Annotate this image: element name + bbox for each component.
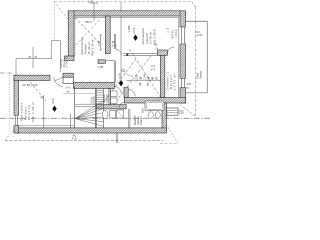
balcony outline right [186,21,208,93]
label zimmer rotated [166,71,177,90]
fixture rect wc-room 1 [111,91,118,97]
door arc bath [128,90,135,97]
door arc entrance west-wing [54,77,63,86]
wall interior v1 (x105-110) [105,16,110,54]
svg-text:RW 2.40 m: RW 2.40 m [91,39,95,55]
stair treads [96,91,103,104]
stair label rotated [91,96,97,105]
wall bottom inner face line [19,125,75,127]
dashed slope line hall D1 [104,59,137,102]
svg-text:1.385: 1.385 [98,67,104,69]
label gang rotated [59,55,69,67]
window box southeast [166,108,178,115]
wc oval 2 [148,112,153,118]
hall stair boundary line [74,86,76,128]
wall top inner face line [74,17,179,19]
stair winder fan [75,101,104,127]
label wohndiele rotated [20,102,35,122]
partition thin glass hall [114,34,157,83]
dimension vertical 2.38 [100,35,102,50]
partition line wohndiele east [69,114,71,128]
window axis dash-dot stub left [0,72,12,74]
wc oval bath [102,111,108,119]
stair right string [103,89,105,128]
newel post partition [126,53,128,56]
svg-text:1.01: 1.01 [151,66,156,68]
wall interior h2 (wc south) [96,105,126,109]
wall bottom main exterior [14,128,166,133]
axis dash line x=121 [120,2,122,81]
vestibule lower box [63,77,73,83]
svg-text:2.38: 2.38 [97,40,101,46]
stair left string [95,89,97,128]
door arc hall north [115,49,121,55]
line under hall door [63,93,96,95]
roof eave NE corner diagonal [192,2,196,7]
svg-text:24: 24 [138,82,142,86]
svg-text:4.95: 4.95 [186,83,191,86]
shower square bath [117,110,124,118]
svg-text:+2.62: +2.62 [196,34,203,37]
fixture rect wc-room 2 [111,98,118,104]
svg-text:+5.00: +5.00 [133,27,136,34]
roof eave right dashed line [195,7,197,116]
entrance triangle marker [72,134,76,139]
downpipe lines below bottom wall [115,133,117,143]
wall right exterior [180,11,186,103]
leader arc hall [124,70,133,77]
labels wc room rotated [103,94,109,103]
label bad rotated [142,108,169,118]
window west wall wohndiele [11,115,20,125]
dashed slope line kitchen D3 [130,49,171,112]
wall piece zimmer north hatched [158,50,168,55]
wall left upper exterior [68,11,74,56]
dashed slope wohndiele [30,82,46,101]
roof eave left dotted line [8,75,10,131]
bath label rotated 2 [133,115,143,125]
svg-text:+5.00: +5.00 [119,73,122,80]
dimension row hall [126,80,161,82]
column circle hall [122,69,125,72]
wall step southeast vertical [162,103,166,131]
window right wall upper [180,27,186,44]
svg-text:17.6/28: 17.6/28 [93,96,96,105]
svg-text:7.66 m²: 7.66 m² [166,109,169,118]
wall interior v3 (wc east) [109,89,110,105]
svg-text:1.07: 1.07 [88,0,94,4]
label brh window kitchen rotated [172,29,178,39]
svg-text:+5.00: +5.00 [52,98,55,105]
svg-text:11.52 m²: 11.52 m² [173,72,177,90]
window right wall lower [180,78,186,87]
wall interior h1 (hall south) [73,83,114,89]
partition shower thin [128,109,130,128]
wall top west-wing exterior [14,75,50,80]
wall left west-wing exterior [14,75,19,133]
svg-text:RW 2.40 m: RW 2.40 m [152,28,156,44]
winder treads horizontal [75,104,97,106]
door arc zimmer [167,47,174,54]
svg-text:5.75: 5.75 [151,70,156,72]
svg-text:OK FB +5.00: OK FB +5.00 [22,83,38,87]
line hall top thin [105,59,114,61]
dashed slope line hall D2 [110,54,152,110]
roof eave SW diagonal [5,128,16,141]
wall interior stub west of hall [98,60,105,64]
wall top exterior [68,11,185,16]
wall left inner face line [74,18,76,57]
svg-text:1.76/2.3: 1.76/2.3 [175,29,178,38]
roof eave bottom dashed line [5,140,163,142]
small switch symbol kitchen [129,26,130,31]
svg-text:380 m²: 380 m² [85,21,93,24]
svg-text:2.88 m²: 2.88 m² [106,94,109,103]
roof left upper dotted line [53,2,55,40]
svg-text:Bad: Bad [142,108,145,113]
level marker diamond wohndiele [52,106,56,112]
roof hip NW diagonal dashed [57,5,70,21]
svg-text:8.06 m²: 8.06 m² [139,116,143,125]
dimension tick top [90,2,99,4]
label wohnkueche rotated [141,28,156,45]
roof eave top dashed line [54,1,191,3]
wall right inner face line [178,18,180,98]
level marker diamond hall [119,80,123,86]
roof ridge dash-dot line [0,117,210,119]
level marker diamond kitchen [133,35,137,41]
wall pier vestibule hatched [63,73,73,77]
svg-text:RW 2.40 m: RW 2.40 m [31,102,35,122]
bathtub [145,101,164,111]
svg-text:5.08 m²: 5.08 m² [65,55,69,67]
svg-text:57: 57 [155,76,159,80]
svg-text:57: 57 [146,82,150,86]
wall southeast horizontal [124,98,185,104]
thin knee-wall polyline left [16,41,60,75]
roof hip SE-bottom diagonal dashed [163,119,179,144]
svg-text:2.10: 2.10 [179,113,184,115]
dashed X wohnzimmer b [76,19,101,46]
door arc hall to corridor [114,87,121,94]
svg-text:2.35: 2.35 [112,44,117,47]
wall interior v4 zimmer west [160,55,165,97]
dashed X wohnzimmer a [75,18,101,45]
svg-text:Campa: Campa [200,71,203,80]
sink rect bath [110,111,116,119]
roof eave SE diagonal to corner [181,105,195,116]
door arc wc [119,102,125,108]
bidet oval [155,112,160,118]
thin line x33 window axis [32,47,34,68]
label wohnzimmer rotated [80,37,95,56]
svg-text:24.0: 24.0 [66,85,72,89]
wall interior v2 (x124-128) [124,88,128,98]
wall corner stub gang [65,56,75,61]
thin line x43.8 wohndiele [43,95,45,128]
